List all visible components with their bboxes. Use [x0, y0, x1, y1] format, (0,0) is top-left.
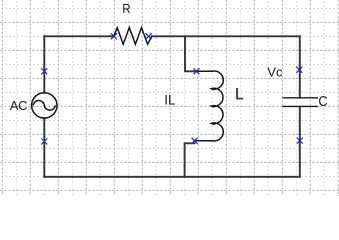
- svg-text:IL: IL: [164, 93, 176, 108]
- svg-text:AC: AC: [10, 98, 27, 113]
- svg-text:Vc: Vc: [267, 65, 283, 80]
- svg-text:L: L: [235, 85, 244, 104]
- svg-text:R: R: [122, 1, 130, 16]
- svg-text:C: C: [318, 94, 327, 110]
